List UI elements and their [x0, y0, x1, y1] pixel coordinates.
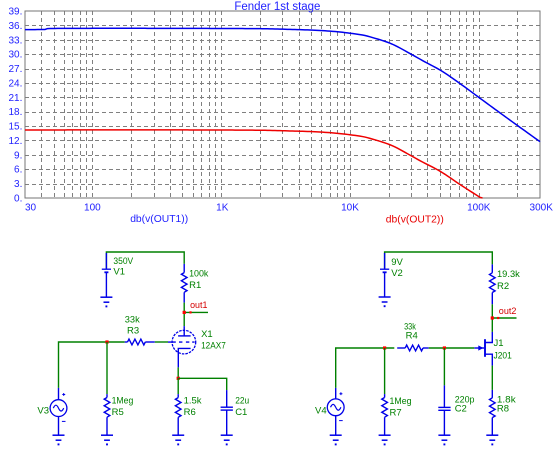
svg-text:R8: R8: [497, 404, 509, 415]
ground V1: [100, 297, 112, 306]
wire R1 to plate: [183, 303, 185, 327]
ground R6: [172, 435, 184, 444]
svg-text:100K: 100K: [467, 202, 491, 213]
svg-text:10K: 10K: [341, 202, 359, 213]
svg-text:R2: R2: [497, 281, 509, 292]
svg-text:X1: X1: [201, 329, 213, 340]
svg-text:R3: R3: [127, 325, 139, 336]
svg-text:V4: V4: [315, 406, 327, 417]
svg-text:db(v(OUT2)): db(v(OUT2)): [386, 213, 444, 225]
wire junction to C1: [178, 378, 227, 390]
wire V1 top rail: [106, 252, 184, 269]
capacitor C1: [221, 390, 250, 435]
resistor R5: [104, 342, 133, 435]
svg-text:V2: V2: [391, 268, 403, 279]
svg-text:21.: 21.: [8, 93, 22, 104]
svg-text:0.: 0.: [14, 194, 22, 205]
svg-text:1Meg: 1Meg: [390, 396, 412, 407]
resistor R1: [181, 264, 208, 303]
wire R4 to gate: [429, 347, 475, 349]
source V4: [315, 388, 344, 435]
svg-text:R7: R7: [390, 407, 402, 418]
resistor R8: [490, 366, 516, 436]
wire gate row right: [336, 348, 395, 388]
svg-text:22u: 22u: [235, 395, 249, 406]
x axis labels: [25, 202, 553, 213]
svg-text:27.: 27.: [8, 64, 22, 75]
resistor R7: [382, 348, 412, 435]
svg-text:V1: V1: [113, 267, 125, 278]
svg-text:100: 100: [84, 202, 101, 213]
capacitor C2: [438, 348, 474, 435]
resistor R3: [125, 315, 155, 345]
wire gate row left: [59, 342, 125, 388]
svg-text:36.: 36.: [8, 21, 22, 32]
svg-text:V3: V3: [37, 406, 49, 417]
svg-text:R5: R5: [112, 407, 124, 418]
resistor R2: [490, 264, 521, 304]
svg-text:12AX7: 12AX7: [201, 341, 226, 352]
svg-text:12.: 12.: [8, 136, 22, 147]
node cathode junction: [177, 377, 180, 380]
ground R8: [486, 435, 498, 444]
svg-text:C2: C2: [455, 404, 467, 415]
wire V2 top rail: [385, 252, 493, 269]
ground V4: [330, 435, 342, 444]
svg-text:9V: 9V: [391, 257, 403, 268]
svg-text:db(v(OUT1)): db(v(OUT1)): [130, 213, 188, 225]
svg-text:R6: R6: [184, 407, 196, 418]
svg-text:1.5k: 1.5k: [184, 395, 202, 406]
node R5 junction: [105, 340, 108, 343]
svg-text:100k: 100k: [189, 268, 209, 279]
svg-text:R1: R1: [189, 280, 201, 291]
svg-text:39.: 39.: [8, 7, 22, 18]
ground V3: [53, 435, 65, 444]
wire cathode: [177, 367, 179, 378]
svg-text:1Meg: 1Meg: [112, 396, 134, 407]
wire R3 to grid: [155, 341, 168, 343]
svg-text:out2: out2: [499, 306, 517, 317]
svg-text:R4: R4: [406, 330, 418, 341]
y axis labels: [8, 7, 22, 205]
svg-text:33k: 33k: [125, 315, 140, 326]
svg-text:15.: 15.: [8, 122, 22, 133]
ground R7: [379, 435, 391, 444]
trace db(v(OUT2)) red: [25, 130, 483, 198]
svg-text:1K: 1K: [216, 202, 229, 213]
ground C2: [438, 435, 450, 444]
svg-text:33.: 33.: [8, 35, 22, 46]
source V3: [37, 388, 66, 435]
JFET J1 J201: [474, 332, 512, 366]
chart frame: [25, 11, 540, 198]
svg-text:9.: 9.: [14, 150, 22, 161]
node R7 junction: [383, 346, 386, 349]
battery V1: [102, 253, 134, 297]
triode X1 12AX7: [168, 326, 226, 367]
wire R2 to drain: [491, 304, 493, 332]
svg-text:out1: out1: [190, 300, 207, 311]
svg-text:C1: C1: [235, 407, 247, 418]
ground V2: [379, 297, 391, 306]
svg-text:3.: 3.: [14, 179, 22, 190]
battery V2: [380, 253, 403, 297]
trace db(v(OUT1)) blue: [25, 28, 540, 141]
node out2: [491, 306, 517, 319]
ground R5: [101, 435, 113, 444]
svg-text:J201: J201: [494, 350, 512, 361]
svg-text:Fender 1st stage: Fender 1st stage: [234, 1, 320, 13]
svg-text:18.: 18.: [8, 107, 22, 118]
svg-text:J1: J1: [494, 338, 504, 349]
svg-text:30: 30: [25, 202, 37, 213]
svg-text:350V: 350V: [113, 256, 133, 267]
svg-text:24.: 24.: [8, 78, 22, 89]
node out1: [183, 300, 208, 314]
svg-text:6.: 6.: [14, 165, 22, 176]
svg-text:19.3k: 19.3k: [497, 269, 520, 280]
svg-text:30.: 30.: [8, 50, 22, 61]
ground C1: [221, 435, 233, 444]
resistor R6: [175, 378, 201, 435]
svg-text:300K: 300K: [530, 202, 554, 213]
node C2 junction: [443, 346, 446, 349]
resistor R4: [397, 322, 429, 351]
